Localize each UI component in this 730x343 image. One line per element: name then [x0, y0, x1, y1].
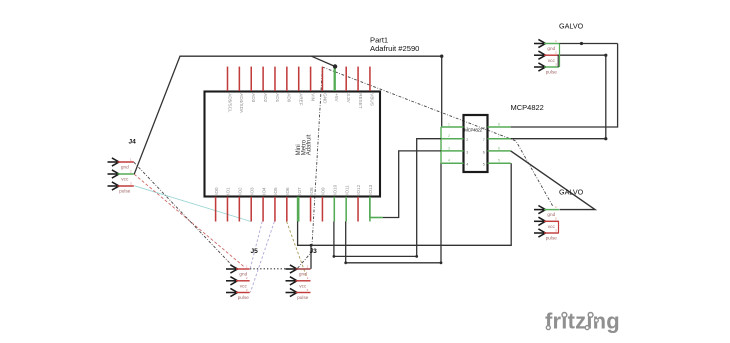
- svg-text:7: 7: [498, 134, 500, 138]
- svg-text:fritzing: fritzing: [545, 309, 620, 334]
- svg-text:AD2: AD2: [263, 93, 268, 102]
- svg-text:5: 5: [498, 159, 500, 163]
- svg-text:IO0: IO0: [214, 187, 219, 195]
- svg-text:IO13: IO13: [368, 184, 373, 194]
- svg-text:4: 4: [448, 159, 450, 163]
- svg-text:pulse: pulse: [546, 70, 558, 75]
- svg-text:2: 2: [448, 134, 450, 138]
- svg-text:RESET: RESET: [358, 93, 363, 109]
- svg-text:3: 3: [448, 146, 450, 150]
- svg-text:5: 5: [483, 163, 485, 167]
- svg-text:IO12: IO12: [356, 184, 361, 194]
- svg-text:Adafruit #2590: Adafruit #2590: [370, 44, 419, 53]
- svg-text:pulse: pulse: [238, 295, 250, 300]
- svg-text:IO6: IO6: [285, 187, 290, 195]
- svg-text:IO5: IO5: [273, 187, 278, 195]
- svg-text:8: 8: [498, 123, 500, 127]
- svg-text:6: 6: [498, 146, 500, 150]
- svg-text:IO11: IO11: [344, 185, 349, 195]
- svg-text:Adafruit: Adafruit: [307, 134, 313, 155]
- svg-text:gnd: gnd: [121, 165, 129, 170]
- svg-text:3.3V: 3.3V: [346, 93, 351, 103]
- svg-text:IO3: IO3: [249, 187, 254, 195]
- svg-text:GALVO: GALVO: [559, 187, 584, 196]
- svg-text:IO7: IO7: [297, 187, 302, 195]
- svg-text:AD1: AD1: [275, 93, 280, 102]
- svg-text:4: 4: [466, 163, 468, 167]
- svg-text:IO4: IO4: [261, 187, 266, 195]
- svg-text:+5V: +5V: [334, 93, 339, 102]
- svg-text:GALVO: GALVO: [559, 21, 584, 30]
- svg-text:AD3: AD3: [251, 93, 256, 102]
- svg-text:AREF: AREF: [299, 93, 304, 105]
- svg-text:2: 2: [466, 138, 468, 142]
- svg-text:VIN: VIN: [310, 93, 315, 101]
- svg-text:IO10: IO10: [333, 184, 338, 194]
- svg-text:6: 6: [483, 150, 485, 154]
- svg-text:VBUS: VBUS: [370, 93, 375, 106]
- svg-text:MCP4822: MCP4822: [511, 103, 544, 112]
- svg-text:1: 1: [466, 127, 468, 131]
- svg-text:3: 3: [466, 150, 468, 154]
- svg-text:J5: J5: [251, 248, 259, 255]
- svg-text:AD4/SDA: AD4/SDA: [239, 93, 244, 114]
- svg-text:J4: J4: [129, 139, 137, 146]
- svg-text:7: 7: [483, 138, 485, 142]
- svg-text:J3: J3: [310, 248, 318, 255]
- svg-text:AD5/SCL: AD5/SCL: [227, 93, 232, 113]
- svg-text:8: 8: [483, 127, 485, 131]
- svg-text:AD0: AD0: [287, 93, 292, 102]
- svg-text:IO1: IO1: [226, 187, 231, 195]
- svg-text:pulse: pulse: [297, 295, 309, 300]
- svg-text:IO8: IO8: [309, 187, 314, 195]
- svg-text:GND: GND: [322, 93, 327, 104]
- svg-text:IO9: IO9: [321, 187, 326, 195]
- svg-text:pulse: pulse: [119, 189, 131, 194]
- svg-text:pulse: pulse: [546, 236, 558, 241]
- svg-text:1: 1: [448, 123, 450, 127]
- svg-text:vcc: vcc: [121, 177, 129, 182]
- svg-text:IO2: IO2: [238, 187, 243, 195]
